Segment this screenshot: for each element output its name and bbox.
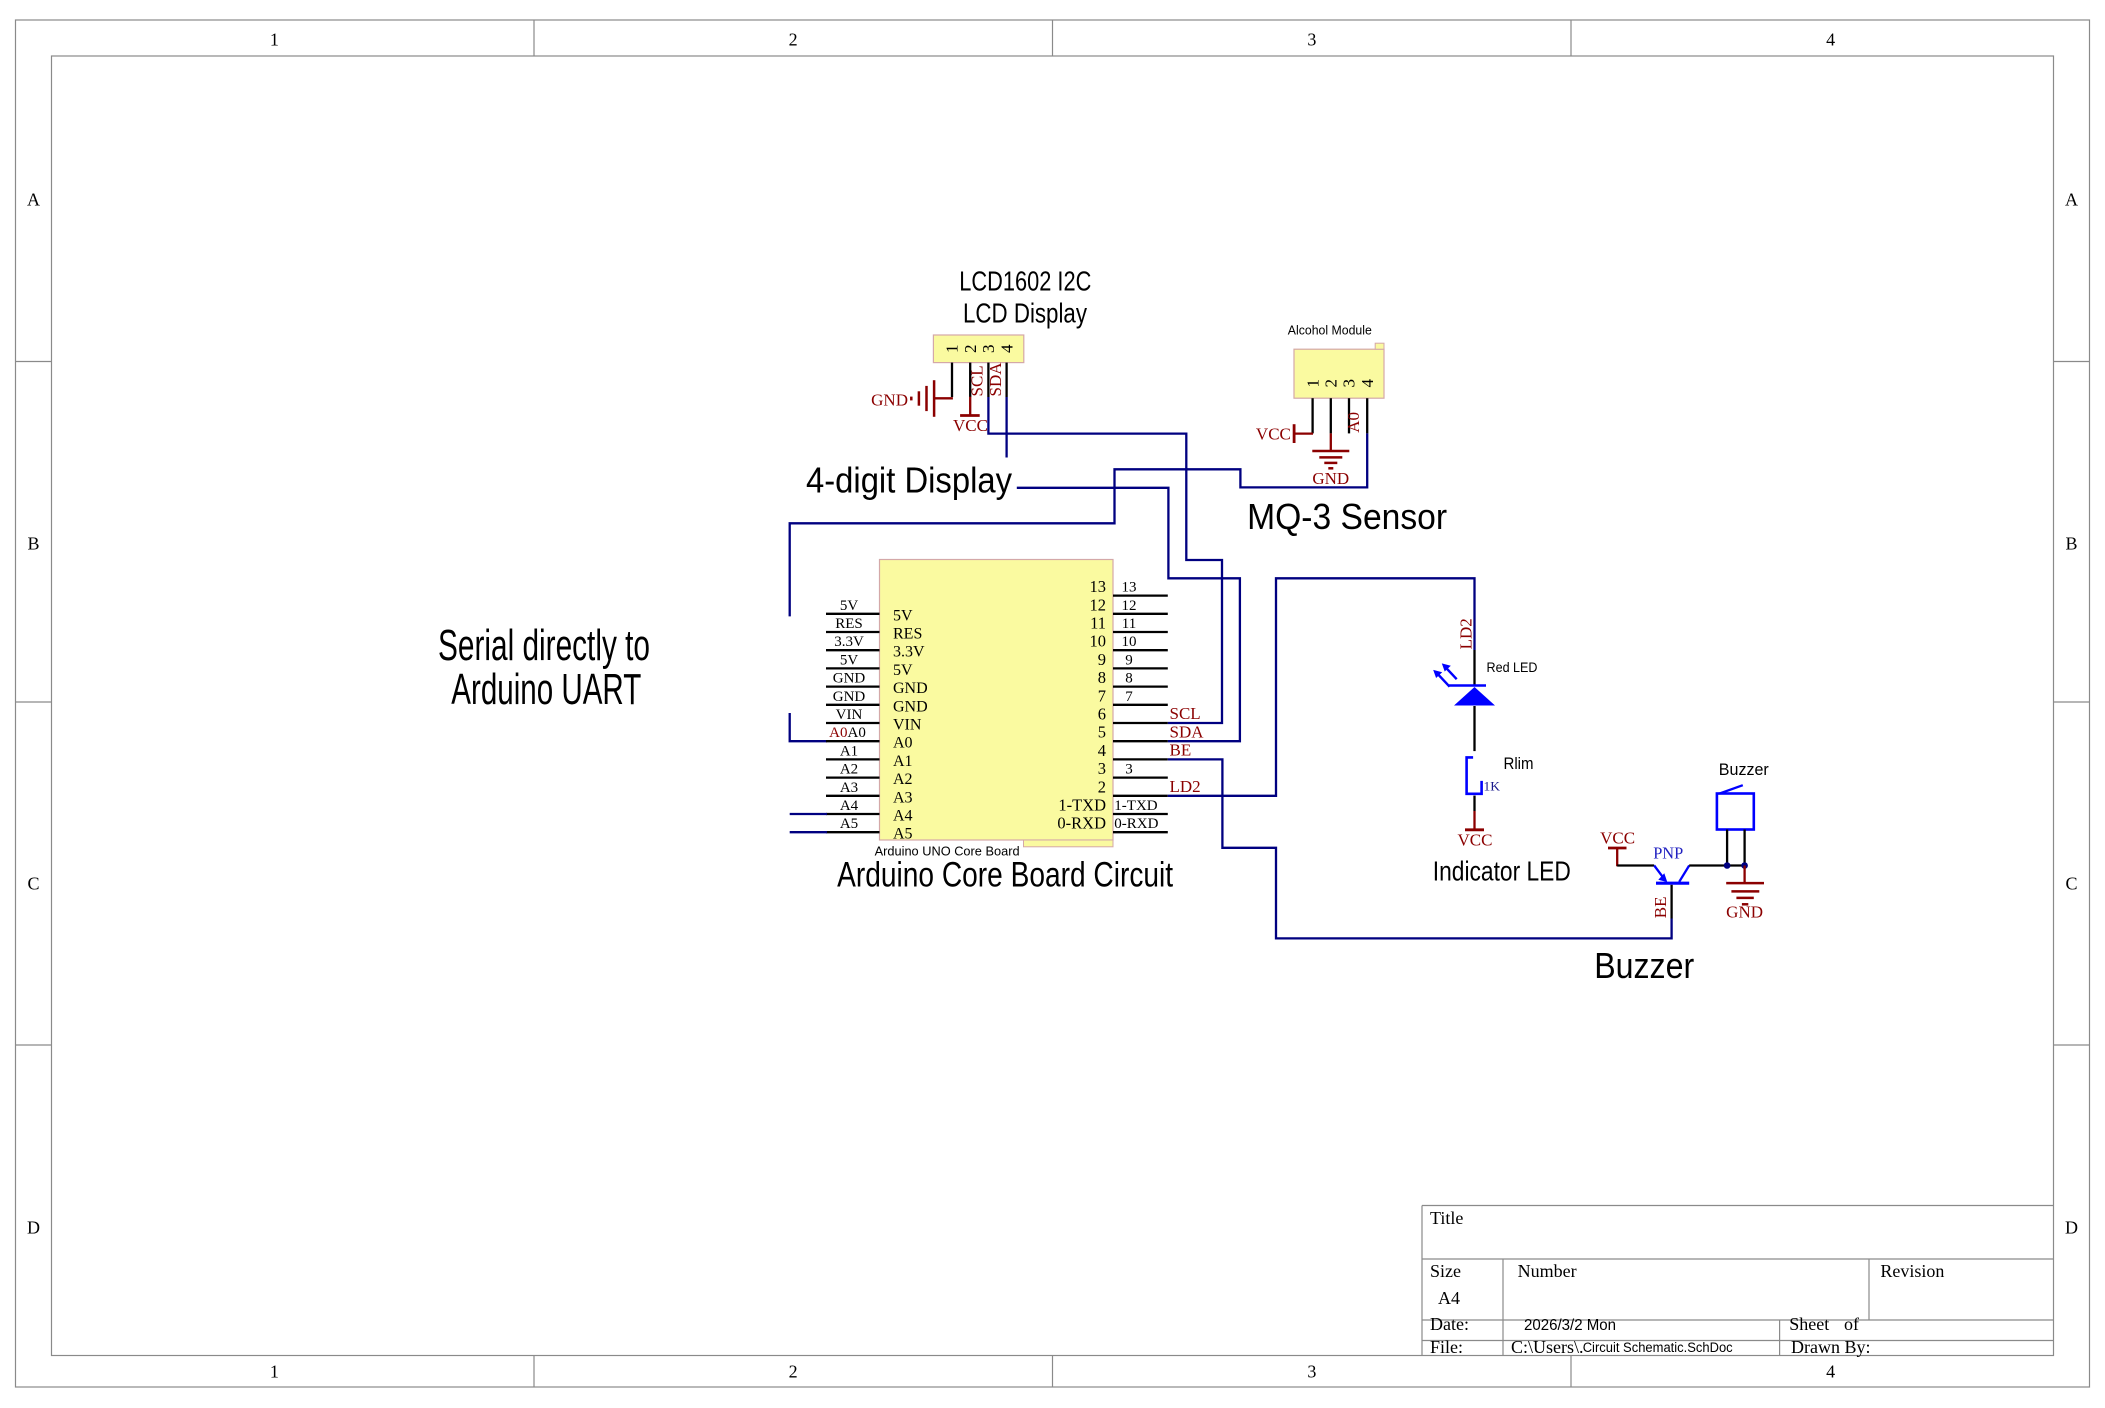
buzzer LS1	[1717, 785, 1754, 865]
svg-text:A0: A0	[893, 735, 913, 752]
svg-text:3: 3	[979, 345, 998, 354]
U1 left pin RES	[826, 616, 922, 643]
svg-text:SDA: SDA	[986, 362, 1005, 397]
svg-text:1: 1	[943, 345, 962, 354]
svg-text:13: 13	[1090, 577, 1107, 596]
svg-text:11: 11	[1090, 614, 1106, 633]
J2 pin 3	[1340, 379, 1359, 433]
net label A0 (red) at U1 left pin A0	[829, 725, 847, 741]
svg-text:Buzzer: Buzzer	[1719, 760, 1769, 779]
svg-text:2: 2	[961, 345, 980, 354]
svg-text:3.3V: 3.3V	[834, 634, 864, 650]
U1 right pin 6	[1098, 705, 1168, 724]
label Arduino Core Board Circuit	[837, 856, 1173, 895]
title block	[1422, 1206, 2054, 1358]
svg-text:A: A	[27, 190, 40, 210]
label Alcohol Module	[1288, 322, 1372, 337]
svg-text:A5: A5	[840, 816, 858, 832]
svg-text:RES: RES	[893, 626, 922, 643]
svg-text:3: 3	[1307, 30, 1316, 50]
svg-text:Revision: Revision	[1880, 1261, 1944, 1281]
U1 right pin 10	[1090, 632, 1168, 651]
svg-text:3: 3	[1098, 759, 1106, 778]
U1 left pin 5V	[826, 598, 913, 625]
svg-text:Date:: Date:	[1430, 1314, 1469, 1334]
wire net 4-digit Display to U1 pin 5 (SDA)	[1017, 488, 1240, 741]
svg-text:5: 5	[1098, 723, 1106, 742]
svg-text:SDA: SDA	[1170, 722, 1205, 741]
svg-text:2: 2	[1098, 777, 1106, 796]
svg-text:VIN: VIN	[893, 717, 922, 734]
U1 left pin A1	[826, 743, 913, 770]
J1 pin 2	[961, 345, 980, 398]
J1 pin 3	[979, 345, 998, 398]
net label SDA (red) at U1 right pin 5	[1170, 722, 1205, 741]
svg-text:1-TXD: 1-TXD	[1114, 798, 1157, 814]
svg-text:Alcohol Module: Alcohol Module	[1288, 322, 1372, 337]
net label A0 (rotated) at J2 pin 4	[1344, 412, 1363, 433]
net label LD2 (rotated) at LED	[1456, 618, 1475, 649]
U1 left pin 5V	[826, 652, 913, 679]
svg-text:4: 4	[1098, 741, 1106, 760]
transistor Q1 PNP	[1654, 866, 1689, 919]
svg-text:A2: A2	[840, 762, 858, 778]
label Arduino UNO Core Board	[875, 844, 1020, 859]
svg-text:13: 13	[1122, 580, 1137, 596]
wire stub net SDA: J1 pin4	[1005, 397, 1007, 458]
svg-text:File:: File:	[1430, 1337, 1463, 1357]
svg-text:A4: A4	[1438, 1288, 1460, 1308]
svg-text:12: 12	[1090, 595, 1107, 614]
svg-text:2: 2	[789, 1362, 798, 1382]
svg-text:3: 3	[1307, 1362, 1316, 1382]
svg-text:1K: 1K	[1484, 778, 1501, 793]
resistor Rlim 1K	[1467, 757, 1482, 793]
label Buzzer (section)	[1594, 945, 1694, 986]
svg-text:A0: A0	[829, 725, 847, 741]
label Rlim	[1504, 754, 1534, 773]
svg-text:4: 4	[1826, 1362, 1835, 1382]
svg-text:BE: BE	[1651, 896, 1670, 918]
svg-text:2026/3/2 Mon: 2026/3/2 Mon	[1524, 1317, 1616, 1334]
J2 pin 2	[1322, 379, 1341, 433]
svg-text:10: 10	[1090, 632, 1107, 651]
connector J1 LCD1602 I2C 4-pin header	[933, 335, 1023, 363]
label / net 4-digit Display	[806, 460, 1012, 501]
svg-text:GND: GND	[871, 390, 908, 409]
svg-text:GND: GND	[893, 680, 928, 697]
svg-text:A1: A1	[840, 743, 858, 759]
svg-text:Title: Title	[1430, 1208, 1463, 1228]
U1 left pin A3	[826, 780, 913, 807]
svg-text:Buzzer: Buzzer	[1594, 945, 1694, 986]
net label LD2 (red) at U1 right pin 2	[1170, 777, 1201, 796]
note: Serial directly to Arduino UART	[438, 621, 650, 714]
U1 right pin 13	[1090, 577, 1168, 596]
U1 left pin A2	[826, 762, 913, 789]
svg-text:VCC: VCC	[1600, 828, 1635, 847]
U1 left pin A4	[826, 798, 913, 825]
svg-text:C:\Users\.: C:\Users\.	[1511, 1337, 1584, 1357]
svg-text:A5: A5	[893, 826, 913, 843]
svg-text:GND: GND	[833, 689, 866, 705]
svg-text:A2: A2	[893, 771, 913, 788]
value 1K	[1484, 778, 1501, 793]
svg-text:1-TXD: 1-TXD	[1058, 796, 1106, 815]
svg-text:Red LED: Red LED	[1487, 659, 1538, 675]
svg-text:MQ-3 Sensor: MQ-3 Sensor	[1247, 496, 1447, 537]
wire stub at U1 pin A5	[790, 831, 827, 833]
wire net LD2: U1 pin2 to LED anode	[1168, 578, 1475, 796]
U1 right pin 7	[1098, 686, 1168, 705]
U1 left pin GND	[826, 671, 928, 698]
wire LED anode to Rlim	[1473, 706, 1475, 751]
U1 right pin 8	[1098, 668, 1168, 687]
svg-text:A3: A3	[893, 789, 913, 806]
svg-text:8: 8	[1125, 671, 1133, 687]
svg-text:RES: RES	[835, 616, 863, 632]
svg-text:of: of	[1844, 1314, 1859, 1334]
label LCD Display	[963, 298, 1087, 329]
svg-text:VCC: VCC	[1256, 424, 1291, 443]
net label BE (rotated) at Q1 base	[1651, 896, 1670, 918]
svg-text:9: 9	[1125, 652, 1133, 668]
svg-text:B: B	[27, 534, 39, 554]
svg-text:Drawn By:: Drawn By:	[1791, 1337, 1871, 1357]
ground symbol GND at J2 pin 2	[1312, 433, 1349, 488]
IC U1 Arduino UNO Core Board body	[880, 560, 1114, 847]
label Indicator LED	[1433, 856, 1571, 887]
svg-text:A3: A3	[840, 780, 858, 796]
power symbol VCC at J2 pin 1	[1256, 424, 1313, 443]
label Buzzer (component)	[1719, 760, 1769, 779]
svg-text:VCC: VCC	[953, 416, 988, 435]
svg-text:Size: Size	[1430, 1261, 1461, 1281]
wire Q1 emitter to VCC	[1617, 864, 1654, 866]
svg-text:10: 10	[1122, 634, 1137, 650]
svg-text:LCD1602 I2C: LCD1602 I2C	[959, 265, 1091, 296]
svg-text:9: 9	[1098, 650, 1106, 669]
svg-text:A0: A0	[1344, 412, 1363, 433]
svg-text:A0: A0	[848, 725, 866, 741]
svg-text:3: 3	[1125, 762, 1133, 778]
svg-text:GND: GND	[833, 671, 866, 687]
U1 right pin 12	[1090, 595, 1168, 614]
svg-text:A4: A4	[893, 808, 913, 825]
svg-text:1: 1	[270, 1362, 279, 1382]
svg-text:GND: GND	[1312, 469, 1349, 488]
svg-text:Arduino UART: Arduino UART	[451, 665, 641, 714]
U1 right pin 0-RXD	[1057, 814, 1167, 833]
svg-text:1: 1	[270, 30, 279, 50]
power symbol VCC (Q1 emitter)	[1600, 828, 1635, 866]
svg-text:C: C	[2065, 874, 2077, 894]
U1 right pin 4	[1098, 741, 1168, 760]
U1 right pin 2	[1098, 777, 1168, 796]
svg-text:0-RXD: 0-RXD	[1057, 814, 1106, 833]
wire Rlim to VCC	[1473, 796, 1475, 811]
U1 left pin A0	[826, 725, 913, 752]
svg-text:8: 8	[1098, 668, 1106, 687]
svg-text:D: D	[27, 1218, 40, 1238]
svg-text:3: 3	[1340, 379, 1359, 388]
svg-text:Number: Number	[1518, 1261, 1577, 1281]
svg-text:6: 6	[1098, 705, 1106, 724]
svg-text:4: 4	[1826, 30, 1835, 50]
svg-text:7: 7	[1098, 686, 1106, 705]
wire net BE: U1 pin4 to Q1 base	[1168, 759, 1672, 938]
svg-text:5V: 5V	[840, 598, 859, 614]
svg-text:B: B	[2065, 534, 2077, 554]
ground symbol GND (buzzer)	[1726, 866, 1764, 922]
svg-text:SCL: SCL	[1170, 704, 1201, 723]
svg-text:LCD Display: LCD Display	[963, 298, 1087, 329]
net label SCL (red) at U1 right pin 6	[1170, 704, 1201, 723]
svg-text:12: 12	[1122, 598, 1137, 614]
svg-text:GND: GND	[1726, 903, 1763, 922]
ground symbol GND at J1 pin 1	[871, 380, 953, 417]
svg-text:BE: BE	[1170, 741, 1192, 760]
svg-text:Serial directly to: Serial directly to	[438, 621, 650, 670]
net label BE (red) at U1 right pin 4	[1170, 741, 1192, 760]
svg-text:VCC: VCC	[1458, 830, 1493, 849]
svg-text:2: 2	[789, 30, 798, 50]
svg-text:D: D	[2065, 1218, 2078, 1238]
U1 right pin 11	[1090, 614, 1168, 633]
svg-text:Sheet: Sheet	[1789, 1314, 1829, 1334]
wire net SCL: J1 pin3 to U1 pin 6	[988, 397, 1222, 723]
junction dot at buzzer pin 1	[1724, 862, 1731, 869]
label MQ-3 Sensor	[1247, 496, 1447, 537]
svg-text:4: 4	[1358, 379, 1377, 388]
label LCD1602 I2C	[959, 265, 1091, 296]
LED LD2 (Red LED) symbol	[1433, 663, 1495, 705]
svg-text:11: 11	[1122, 616, 1136, 632]
svg-text:VIN: VIN	[836, 707, 863, 723]
wire Q1 collector to buzzer pins	[1689, 864, 1744, 866]
svg-text:Rlim: Rlim	[1504, 754, 1534, 773]
U1 right pin 3	[1098, 759, 1168, 778]
svg-text:4-digit Display: 4-digit Display	[806, 460, 1012, 501]
J2 pin 1	[1303, 379, 1322, 433]
J2 pin 4	[1358, 379, 1377, 434]
svg-text:A: A	[2065, 190, 2078, 210]
LED LD2 cathode pin wire	[1473, 650, 1475, 686]
svg-text:A1: A1	[893, 753, 913, 770]
U1 right pin 9	[1098, 650, 1168, 669]
label PNP	[1653, 844, 1683, 863]
svg-text:Indicator LED: Indicator LED	[1433, 856, 1571, 887]
svg-text:Circuit Schematic.SchDoc: Circuit Schematic.SchDoc	[1583, 1340, 1733, 1355]
wire net A0: J2 pin4 toward U1 A0 (upper part, ends in stub)	[790, 433, 1367, 616]
J1 pin 1	[943, 345, 962, 398]
wire net A0: lower stub into U1 pin A0	[790, 713, 827, 741]
svg-text:Arduino Core Board Circuit: Arduino Core Board Circuit	[837, 856, 1173, 895]
svg-text:3.3V: 3.3V	[893, 644, 925, 661]
J1 pin 4	[997, 344, 1016, 397]
svg-text:C: C	[27, 874, 39, 894]
svg-text:5V: 5V	[840, 652, 859, 668]
svg-text:5V: 5V	[893, 662, 913, 679]
svg-text:7: 7	[1125, 689, 1133, 705]
svg-text:2: 2	[1322, 379, 1341, 388]
connector J2 Alcohol Module 4-pin header	[1294, 343, 1384, 398]
svg-text:4: 4	[997, 344, 1016, 353]
U1 right pin 1-TXD	[1058, 796, 1167, 815]
svg-text:5V: 5V	[893, 607, 913, 624]
junction dot at buzzer pin 2	[1741, 862, 1748, 869]
U1 left pin A5	[826, 816, 913, 843]
svg-text:SCL: SCL	[968, 365, 987, 396]
U1 left pin GND	[826, 689, 928, 716]
power symbol VCC (below Rlim)	[1458, 811, 1493, 849]
wire stub at U1 pin A4	[790, 813, 827, 815]
svg-text:1: 1	[1303, 379, 1322, 388]
power symbol VCC at J1 pin 2	[953, 397, 988, 436]
U1 right pin 5	[1098, 723, 1168, 742]
net label SCL (rotated) at J1 pin 3	[968, 365, 987, 396]
svg-text:LD2: LD2	[1170, 777, 1201, 796]
net label SDA (rotated) at J1 pin 4	[986, 362, 1005, 397]
svg-text:LD2: LD2	[1456, 618, 1475, 649]
svg-text:PNP: PNP	[1653, 844, 1683, 863]
svg-text:GND: GND	[893, 698, 928, 715]
svg-text:A4: A4	[840, 798, 859, 814]
U1 left pin VIN	[826, 707, 922, 734]
U1 left pin 3.3V	[826, 634, 925, 661]
label Red LED	[1487, 659, 1538, 675]
svg-text:0-RXD: 0-RXD	[1114, 816, 1158, 832]
